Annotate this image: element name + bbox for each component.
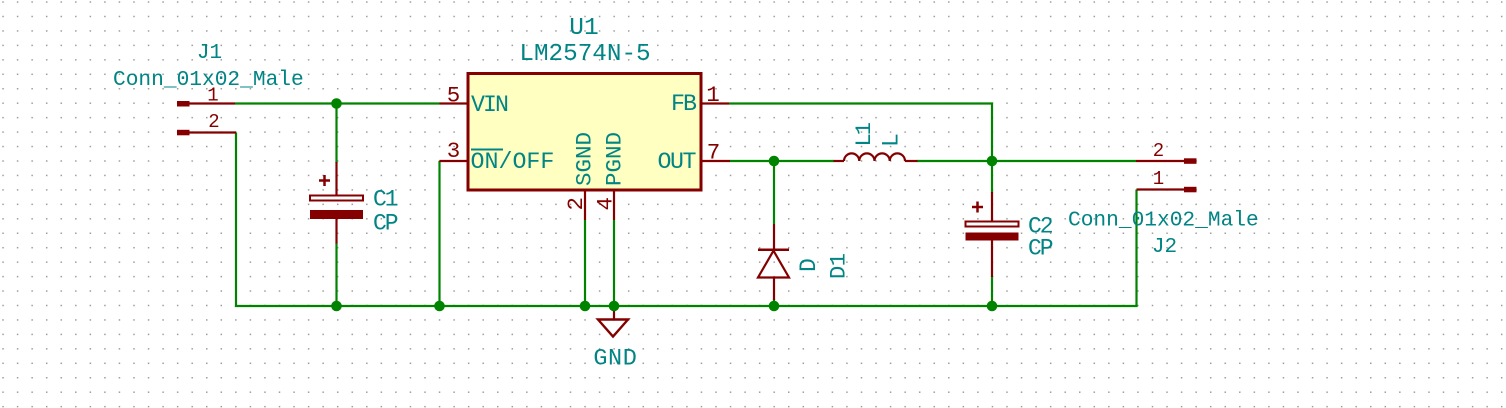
svg-text:5: 5 <box>447 83 461 109</box>
wire bottom rail <box>235 305 1138 307</box>
svg-text:C1: C1 <box>373 187 398 213</box>
op-amp U1 body <box>468 74 701 191</box>
junction PGND bottom <box>609 301 620 312</box>
J1 pin 1 <box>177 101 190 107</box>
wire SGND down <box>584 220 586 306</box>
inductor L1 <box>834 153 918 161</box>
svg-text:4: 4 <box>593 197 619 211</box>
svg-text:2: 2 <box>563 197 589 211</box>
svg-text:1: 1 <box>706 82 720 108</box>
ground <box>598 306 628 337</box>
svg-text:J2: J2 <box>1152 236 1177 259</box>
junction C1 bottom <box>331 301 342 312</box>
junction diode bottom <box>769 301 780 312</box>
svg-text:SGND: SGND <box>572 132 598 186</box>
wire C2 top <box>991 161 993 193</box>
wire diode top <box>773 161 775 224</box>
svg-text:1: 1 <box>1153 168 1164 190</box>
svg-text:OUT: OUT <box>658 149 697 175</box>
svg-text:Conn_01x02_Male: Conn_01x02_Male <box>1068 209 1259 233</box>
wire inductor to J2 pin2 <box>917 160 1136 162</box>
C2 plus sign <box>972 206 983 209</box>
U1 pin 2 stub <box>584 190 586 220</box>
svg-text:VIN: VIN <box>471 92 508 118</box>
capacitor C1 <box>310 162 363 244</box>
svg-text:FB: FB <box>671 91 697 117</box>
svg-text:L1: L1 <box>852 122 877 146</box>
svg-text:PGND: PGND <box>602 132 628 186</box>
wire C2 bottom <box>991 276 993 306</box>
wire diode bottom <box>773 299 775 306</box>
junction C2 bottom <box>987 301 998 312</box>
U1 ON overline <box>471 149 503 151</box>
svg-text:2: 2 <box>208 111 219 133</box>
junction FB/C2 <box>987 156 998 167</box>
U1 pin 3 stub <box>440 160 469 162</box>
svg-text:GND: GND <box>593 346 637 373</box>
junction OUT/diode <box>769 156 780 167</box>
svg-text:CP: CP <box>1028 236 1053 262</box>
wire PGND down <box>613 220 615 306</box>
svg-text:Conn_01x02_Male: Conn_01x02_Male <box>113 68 304 92</box>
J2 pin 2 <box>1184 158 1197 164</box>
svg-text:3: 3 <box>447 138 461 164</box>
wire OUT to inductor <box>730 160 834 162</box>
U1 pin 7 stub <box>701 160 730 162</box>
U1 pin 5 stub <box>440 102 469 104</box>
wire ON/OFF down <box>438 161 440 307</box>
svg-text:J1: J1 <box>197 42 222 65</box>
U1 pin 1 stub <box>701 102 729 104</box>
wire C1 bottom <box>335 243 337 306</box>
wire J1 pin2 down <box>235 133 237 308</box>
connector J2 <box>1136 158 1197 192</box>
svg-text:D1: D1 <box>827 253 852 279</box>
svg-text:D: D <box>796 258 822 272</box>
wire C1 top drop <box>335 104 337 164</box>
svg-text:7: 7 <box>707 140 721 166</box>
svg-text:CP: CP <box>373 211 398 237</box>
svg-text:U1: U1 <box>569 15 598 42</box>
svg-text:ON/OFF: ON/OFF <box>471 149 555 175</box>
J2 pin 1 <box>1184 187 1197 193</box>
svg-text:2: 2 <box>1153 140 1164 162</box>
junction C1 top <box>331 98 342 109</box>
wire J2 pin1 down <box>1135 190 1137 308</box>
wire J1 pin1 to VIN <box>235 102 440 104</box>
svg-text:L: L <box>879 133 905 147</box>
diode D1 <box>758 224 789 300</box>
svg-text:LM2574N-5: LM2574N-5 <box>519 41 650 68</box>
J1 pin 2 <box>177 130 190 136</box>
capacitor C2 <box>966 192 1019 277</box>
wire FB top <box>729 104 992 162</box>
junction SGND bottom <box>580 301 591 312</box>
C1 plus sign <box>319 179 330 182</box>
junction ON/OFF bottom <box>434 301 445 312</box>
connector J1 <box>177 101 236 135</box>
U1 pin 4 stub <box>613 190 615 220</box>
